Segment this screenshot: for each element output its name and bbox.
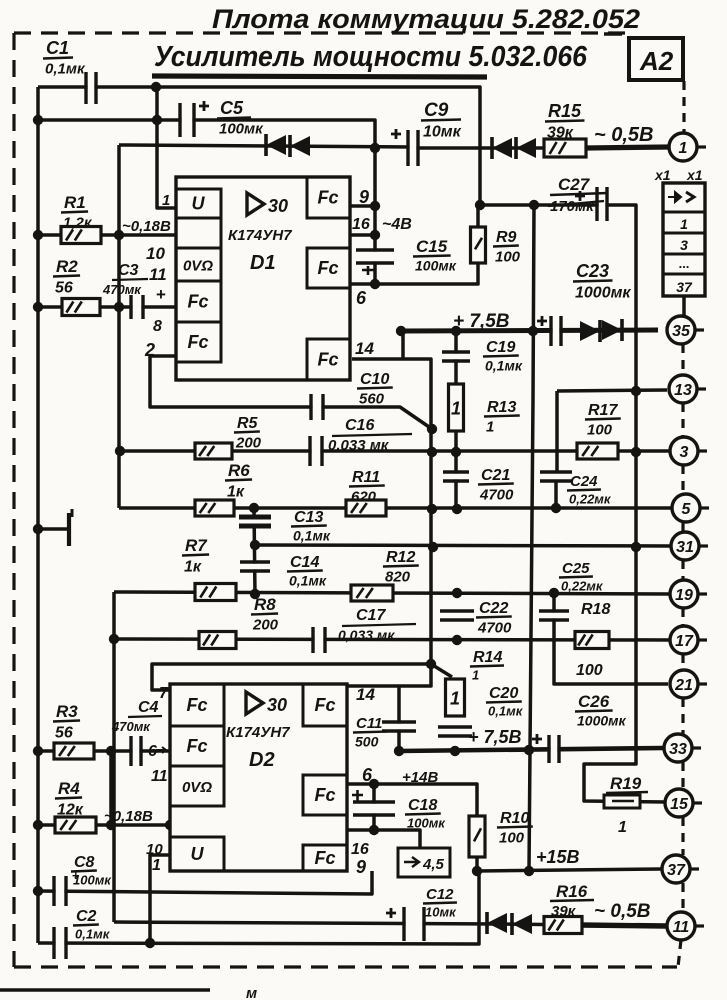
svg-text:+15В: +15В (536, 847, 580, 867)
capacitor C9 10mk (410, 130, 417, 166)
svg-text:С26: С26 (578, 692, 610, 711)
node R3/R4/C8 rail (33, 746, 43, 756)
svg-text:Fс: Fс (317, 188, 338, 208)
svg-text:Fс: Fс (187, 332, 208, 352)
svg-text:С19: С19 (486, 339, 515, 356)
svg-text:14: 14 (355, 339, 374, 358)
wire R10 bottom stub (475, 857, 479, 871)
wire C9 to R15 to pin circle 1 (signal ~0,5V) (416, 146, 600, 150)
svg-text:200: 200 (235, 435, 262, 452)
capacitor C11 500 (382, 724, 416, 730)
diode pair before R15 (492, 138, 512, 158)
resistor R13 1 (449, 384, 464, 431)
svg-text:С17: С17 (356, 607, 386, 624)
svg-text:~4В: ~4В (382, 216, 412, 233)
svg-text:1: 1 (162, 192, 170, 209)
wire R19 jog from bus to pin circle 15 (584, 749, 665, 802)
svg-text:1000мк: 1000мк (575, 285, 631, 302)
node C2 run junction (145, 938, 155, 948)
capacitor C8 100mk (56, 876, 65, 906)
svg-text:100мк: 100мк (73, 873, 112, 888)
svg-text:14: 14 (356, 685, 375, 704)
svg-text:R11: R11 (352, 469, 380, 486)
svg-text:33: 33 (669, 741, 687, 758)
svg-text:Плота коммутации 5.282.052: Плота коммутации 5.282.052 (212, 4, 640, 34)
svg-text:1000мк: 1000мк (577, 713, 627, 729)
svg-text:0,1мк: 0,1мк (45, 61, 86, 78)
svg-text:С20: С20 (489, 685, 518, 702)
svg-text:С27: С27 (558, 175, 591, 194)
svg-text:10: 10 (146, 841, 163, 858)
svg-text:10мк: 10мк (425, 905, 457, 920)
capacitor C12 10mk (406, 907, 423, 941)
svg-text:100: 100 (576, 662, 603, 679)
svg-text:30: 30 (268, 196, 288, 216)
wire D1 pin 16 stub (351, 233, 375, 237)
designator box A2 (629, 38, 683, 80)
svg-text:С23: С23 (576, 261, 609, 281)
wire C19/R13/C21 column x=456 (454, 331, 458, 509)
svg-text:1,2к: 1,2к (63, 215, 93, 232)
capacitor C24 0,22mk (540, 474, 572, 480)
svg-text:37: 37 (667, 862, 686, 879)
svg-text:С9: С9 (424, 100, 449, 121)
wire +14V rail y=750 with C26 to pin circle 33 (399, 748, 664, 751)
svg-text:С24: С24 (570, 473, 598, 490)
svg-text:С13: С13 (294, 509, 323, 526)
resistor R18 100 (575, 632, 609, 649)
resistor R6 1k (195, 500, 234, 516)
capacitor C15 100mk (356, 252, 394, 262)
wire C5 run y=120 turning down x=375 (to D1 pins 9/16/6) (38, 120, 375, 284)
svg-text:R8: R8 (254, 595, 276, 614)
wire C2 bottom run to x=479 and up to +15V rail (38, 871, 479, 944)
wire D2 pin 7 top run y=664 (152, 664, 431, 690)
wire center bus x=432 (D1 pin14 to D2 pin14) (347, 359, 431, 686)
capacitor C14 0,1mk (240, 564, 270, 570)
node bus x=432 junctions (427, 424, 437, 434)
wire C11 column x=399 (397, 686, 401, 751)
wire R4 to D2 pin 10/11 (38, 823, 170, 827)
wire left lower vertical x=114 down to C12 run (112, 592, 116, 922)
svg-text:620: 620 (351, 489, 377, 506)
wire C1 top run y=87 and drop x=480 to C27 node (38, 87, 480, 205)
svg-text:С11: С11 (356, 715, 382, 732)
svg-text:16: 16 (352, 216, 370, 233)
svg-text:+ 7,5В: + 7,5В (453, 311, 510, 332)
wire R7/R12 rail y=593 to pin circle 19 (114, 592, 670, 594)
svg-text:С2: С2 (76, 908, 97, 925)
wire y=546 to pin circle 31 (255, 545, 671, 546)
svg-text:100мк: 100мк (407, 816, 446, 831)
node ground rail (33, 524, 43, 534)
resistor R4 12k (55, 817, 96, 833)
svg-text:С8: С8 (74, 854, 95, 871)
svg-text:Fс: Fс (314, 848, 335, 868)
svg-text:Fс: Fс (317, 350, 338, 370)
wire R9 bottom to D1 pin 6 (351, 263, 478, 284)
svg-text:R6: R6 (228, 461, 250, 480)
node R8 rail junctions (109, 634, 119, 644)
wire C18 stem (372, 784, 376, 830)
wire R9 top stub (476, 205, 480, 227)
svg-text:3: 3 (680, 237, 688, 253)
resistor R12 820 (351, 585, 393, 601)
node C27 rail (475, 200, 485, 210)
svg-text:Fс: Fс (317, 258, 338, 278)
wire C18 bottom y=830 to 4,5V test box (347, 830, 420, 848)
svg-text:К174УН7: К174УН7 (228, 227, 292, 244)
wire R8/C17 rail y=640 to R18 and pin circle 17 (114, 639, 670, 640)
svg-text:470мк: 470мк (102, 282, 142, 297)
capacitor C16 0,033mk (312, 436, 321, 466)
board outline dashes (14, 31, 627, 34)
svg-text:170мк: 170мк (550, 198, 595, 215)
svg-text:6: 6 (356, 288, 367, 308)
pin circle 19 (670, 580, 698, 608)
svg-text:200: 200 (252, 617, 279, 634)
svg-text:R1: R1 (64, 193, 86, 212)
wire D1 pin 2 feedback via C10 to bus x=432 (150, 356, 432, 429)
resistor R17 100 (577, 443, 618, 459)
svg-text:820: 820 (385, 569, 411, 586)
svg-text:R5: R5 (237, 415, 259, 432)
svg-text:13: 13 (674, 382, 692, 399)
wire R16 to pin circle 11 (~0,5V) (580, 925, 667, 926)
svg-text:А2: А2 (639, 46, 674, 76)
node +14V rail junctions (394, 746, 404, 756)
svg-text:0VΩ: 0VΩ (182, 779, 212, 796)
svg-text:С12: С12 (426, 886, 454, 903)
pin circle 37 (662, 855, 690, 883)
node +15V rail junctions (472, 866, 482, 876)
svg-text:35: 35 (672, 323, 691, 340)
svg-text:15: 15 (670, 796, 689, 813)
test point box 4,5V (398, 848, 450, 877)
wire X1 block stub to pin circle 35 (682, 296, 686, 317)
capacitor C26 1000mk (551, 735, 558, 763)
capacitor C23 1000mk (553, 316, 560, 346)
svg-text:С5: С5 (220, 98, 244, 118)
svg-text:39к: 39к (551, 903, 577, 920)
svg-text:+14В: +14В (402, 769, 438, 786)
wire vertical x=119 from input row down to R6 rail (117, 145, 121, 508)
node R2 rail (33, 302, 43, 312)
resistor R8 200 (199, 632, 236, 649)
svg-text:~0,18В: ~0,18В (104, 808, 153, 825)
capacitor C4 470mk (133, 736, 140, 766)
resistor R1 1,2k (61, 227, 101, 244)
svg-text:39к: 39к (547, 125, 574, 142)
svg-text:С22: С22 (479, 600, 508, 617)
ground chassis symbol (38, 527, 69, 530)
svg-text:6: 6 (148, 743, 157, 760)
svg-text:9: 9 (356, 857, 366, 877)
svg-text:R16: R16 (556, 882, 588, 901)
svg-text:4,5: 4,5 (422, 856, 445, 873)
capacitor C3 470mk (133, 295, 142, 319)
resistor R9 100 (471, 227, 486, 263)
svg-text:R10: R10 (500, 810, 529, 827)
svg-text:С18: С18 (408, 797, 437, 814)
svg-text:Fс: Fс (187, 292, 208, 312)
svg-text:R3: R3 (56, 702, 78, 721)
svg-text:100: 100 (587, 422, 613, 439)
resistor R2 56 (62, 299, 100, 316)
resistor R16 39k (544, 917, 582, 934)
svg-text:100: 100 (495, 249, 521, 266)
wire R2/C3 to D1 pin 8 (38, 305, 176, 309)
resistor R15 39k (544, 139, 586, 157)
svg-text:17: 17 (675, 633, 694, 650)
wire C13/C14 column x=255 (254, 508, 255, 595)
resistor R7 1k (195, 584, 236, 601)
wire R3/C4 to D2 pin 6 (38, 749, 170, 753)
capacitor C1 0,1mk (88, 72, 95, 104)
svg-text:R2: R2 (56, 257, 78, 276)
node bypass-13 junction (631, 386, 641, 396)
svg-text:30: 30 (267, 695, 287, 715)
svg-text:4700: 4700 (477, 620, 512, 637)
svg-text:Усилитель мощности 5.032.066: Усилитель мощности 5.032.066 (154, 41, 588, 73)
svg-text:100мк: 100мк (219, 121, 264, 138)
svg-text:500: 500 (355, 734, 379, 750)
node C18 junctions (369, 779, 379, 789)
wire R5/C16 rail y=451 to R17 and pin circle 3 (120, 449, 670, 453)
svg-text:1: 1 (679, 140, 688, 157)
svg-text:0,1мк: 0,1мк (289, 573, 327, 589)
svg-text:9: 9 (359, 187, 369, 207)
svg-text:6: 6 (362, 765, 373, 785)
svg-text:100: 100 (499, 830, 525, 847)
svg-text:~ 0,5В: ~ 0,5В (594, 124, 653, 146)
op-amp IC D1 K174UN7 (176, 177, 350, 380)
svg-text:+: + (156, 285, 166, 304)
svg-text:1: 1 (450, 689, 460, 709)
svg-text:3: 3 (680, 444, 689, 461)
resistor R10 100 (469, 816, 485, 857)
svg-text:4700: 4700 (479, 487, 514, 504)
diode pair at input of circle 1 row (left) (266, 135, 286, 155)
capacitor C5 100mk (182, 103, 193, 137)
wire C18 top y=784 and drop to R10 (347, 784, 477, 816)
svg-text:С16: С16 (345, 417, 374, 434)
node +7,5V rail junctions (396, 326, 406, 336)
node C1/pin1 junction (151, 82, 161, 92)
wire linking R3 and R4 right ends (109, 751, 113, 825)
svg-text:11: 11 (673, 919, 690, 936)
svg-text:1: 1 (618, 819, 627, 836)
pin circle 11 (667, 912, 695, 940)
svg-text:+ 7,5В: + 7,5В (468, 727, 522, 747)
node D1 pins 9/16/6 column (370, 201, 380, 211)
resistor R19 1 (604, 795, 640, 808)
svg-text:37: 37 (676, 279, 693, 295)
diode pair before R16 (left) (487, 913, 507, 933)
capacitor C20 0,1mk (438, 729, 472, 735)
wire D1 pin 1 stub from C1 node (157, 87, 176, 208)
svg-text:х1: х1 (654, 167, 671, 183)
wire bypass y=391 to pin circle 13 (557, 390, 667, 391)
svg-text:U: U (191, 844, 205, 864)
svg-text:Fс: Fс (186, 736, 207, 756)
pin circle 31 (671, 532, 699, 560)
wire D1 pin 9 stub (351, 204, 375, 208)
svg-text:16: 16 (351, 841, 369, 858)
svg-text:1: 1 (486, 419, 494, 436)
pin circle 3 (670, 437, 698, 465)
wire C24 branch x=557 (555, 391, 559, 472)
node C5 rail junctions (33, 115, 43, 125)
pin circle 21 (670, 670, 698, 698)
svg-text:11: 11 (149, 265, 167, 284)
svg-text:R7: R7 (185, 536, 208, 555)
diode pair toward circle 35 (right) (580, 321, 600, 341)
svg-text:R15: R15 (548, 101, 582, 121)
pin circle 13 (669, 375, 697, 403)
svg-text:10: 10 (146, 244, 165, 263)
svg-text:0,033 мк: 0,033 мк (338, 627, 395, 643)
node R5 rail junctions (115, 446, 125, 456)
wire R6/R11 rail y=508 to pin circle 5 (119, 506, 672, 510)
svg-text:С3: С3 (118, 262, 139, 279)
svg-text:560: 560 (359, 391, 385, 408)
svg-text:~ 0,5В: ~ 0,5В (594, 901, 651, 922)
pin circle 35 (667, 316, 695, 344)
svg-text:1к: 1к (227, 484, 245, 501)
pin circle 15 (665, 789, 693, 817)
capacitor C10 560 (313, 394, 322, 420)
pin circle 5 (672, 494, 700, 522)
wire D2 pin 1 stub down to C2 run (150, 855, 170, 943)
node R12 rail junctions (452, 588, 462, 598)
svg-text:1: 1 (472, 668, 479, 683)
svg-text:100мк: 100мк (415, 258, 457, 274)
wire +15V rail y=870 to pin circle 37 (477, 869, 662, 871)
svg-text:56: 56 (55, 725, 73, 742)
svg-text:0VΩ: 0VΩ (183, 258, 213, 275)
svg-text:R14: R14 (473, 649, 502, 666)
wire +7,5V rail y=331 with C23/diodes to pin circle 35 (401, 330, 658, 331)
svg-text:7: 7 (159, 685, 169, 702)
svg-text:С14: С14 (290, 554, 319, 571)
svg-text:12к: 12к (57, 802, 84, 819)
svg-text:~0,18В: ~0,18В (122, 218, 171, 235)
capacitor C27 170mk (599, 187, 606, 221)
svg-text:м: м (246, 985, 257, 1000)
bottom margin rule (0, 988, 210, 991)
capacitor C25 0,22mk (539, 613, 569, 619)
svg-text:19: 19 (675, 587, 693, 604)
connector X1 block (663, 183, 705, 296)
svg-text:1: 1 (680, 216, 688, 232)
resistor R5 200 (195, 443, 232, 459)
svg-text:х1: х1 (686, 167, 703, 183)
svg-text:С4: С4 (138, 699, 159, 716)
svg-text:10мк: 10мк (423, 124, 462, 141)
svg-text:5: 5 (682, 501, 692, 518)
capacitor C18 100mk (353, 804, 395, 814)
svg-text:R18: R18 (581, 601, 610, 618)
svg-text:470мк: 470мк (111, 719, 151, 734)
svg-text:0,22мк: 0,22мк (561, 579, 604, 594)
pin circle 1 (669, 133, 697, 161)
svg-text:8: 8 (153, 318, 162, 335)
svg-text:D2: D2 (249, 749, 275, 771)
svg-text:R19: R19 (610, 774, 642, 793)
svg-text:0,1мк: 0,1мк (485, 358, 523, 374)
wire input diode row y=146 (119, 145, 410, 147)
wire link to R14 top (431, 664, 452, 677)
svg-text:56: 56 (55, 280, 73, 297)
svg-text:2: 2 (144, 340, 155, 360)
capacitor C17 0,033mk (315, 627, 324, 653)
wire C12/diodes y=923 (114, 922, 500, 924)
svg-text:D1: D1 (250, 252, 276, 274)
node C13/C14 junctions (250, 540, 260, 550)
capacitor C13 0,1mk (239, 519, 271, 525)
svg-text:0,1мк: 0,1мк (293, 528, 331, 544)
svg-text:Fс: Fс (314, 785, 335, 805)
capacitor C19 0,1mk (442, 354, 470, 360)
svg-text:К174УН7: К174УН7 (226, 724, 290, 741)
svg-text:U: U (192, 194, 206, 214)
op-amp IC D2 K174UN7 (170, 684, 347, 871)
resistor R3 56 (54, 743, 94, 759)
node R6 rail junctions (249, 503, 259, 513)
resistor R14 1 (446, 679, 465, 716)
resistor R11 620 (346, 500, 386, 516)
svg-text:...: ... (679, 256, 690, 271)
svg-text:R9: R9 (496, 229, 517, 246)
wire right supply bus x=531 (C27 node down to +15V rail) (529, 205, 534, 871)
svg-text:С21: С21 (481, 467, 510, 484)
svg-text:С15: С15 (416, 237, 448, 256)
svg-text:R17: R17 (588, 402, 618, 419)
svg-text:С10: С10 (360, 371, 389, 388)
svg-text:1: 1 (152, 857, 161, 874)
svg-text:R4: R4 (58, 779, 80, 798)
svg-text:31: 31 (676, 539, 694, 556)
wire R1 to D1 pin 10/11 (38, 233, 176, 237)
svg-text:R12: R12 (386, 549, 415, 566)
wire C8 run y=891 up to D2 pin 9 (38, 871, 372, 894)
svg-text:R13: R13 (487, 399, 516, 416)
wire left vertical bus x=38 (C1/C5/R1/R2/gnd/R3/R4/C8/C2 rail) (36, 87, 40, 943)
svg-text:Fс: Fс (186, 695, 207, 715)
pin circle 17 (670, 626, 698, 654)
pin circle 33 (664, 734, 692, 762)
svg-text:1к: 1к (184, 559, 202, 576)
node y=546 rail junctions (428, 542, 438, 552)
svg-text:21: 21 (674, 677, 693, 694)
svg-text:0,1мк: 0,1мк (488, 704, 524, 719)
capacitor C22 4700 (440, 613, 474, 619)
svg-text:1: 1 (451, 399, 461, 419)
svg-text:0,033 мк: 0,033 мк (328, 437, 390, 454)
node R1 rail (33, 230, 43, 240)
svg-text:С1: С1 (46, 38, 69, 58)
capacitor C21 4700 (443, 474, 469, 480)
capacitor C2 0,1mk (56, 927, 65, 959)
wire C27 node y=205 and right bus x=636 (480, 205, 636, 749)
svg-text:Fс: Fс (314, 695, 335, 715)
svg-text:С25: С25 (562, 560, 590, 577)
wire C25 branch x=554 to pin circle 21 (554, 593, 668, 684)
svg-text:0,1мк: 0,1мк (75, 927, 111, 942)
svg-text:0,22мк: 0,22мк (569, 492, 612, 507)
svg-text:11: 11 (151, 768, 168, 785)
